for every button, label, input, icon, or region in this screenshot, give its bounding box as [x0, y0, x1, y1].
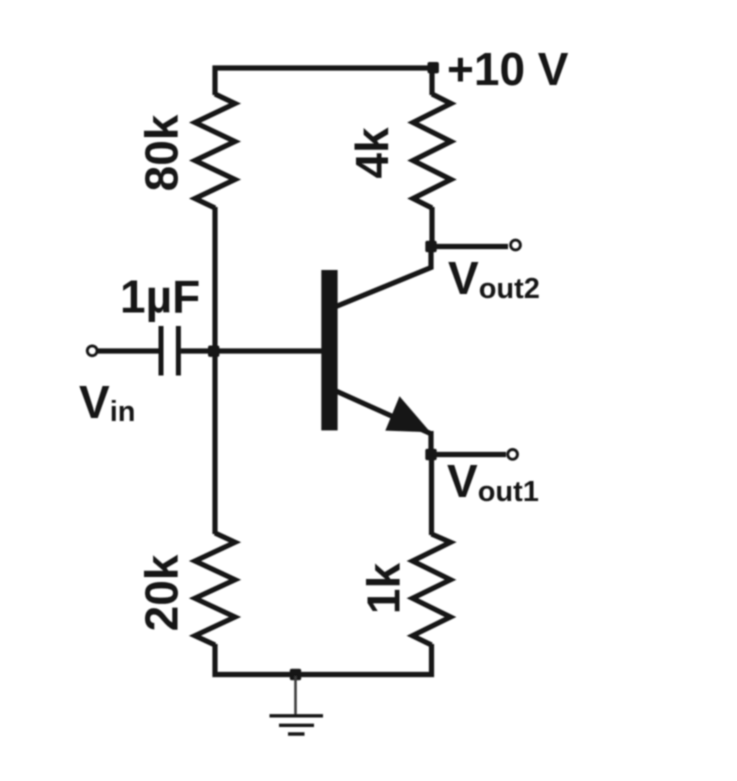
svg-text:1k: 1k: [358, 563, 410, 615]
node junction base/capacitor: [208, 346, 219, 357]
wire top rail: [213, 65, 434, 70]
ground bar 2: [279, 724, 314, 727]
terminal Vout2 circle: [511, 240, 521, 250]
resistor R2 4k body: [413, 94, 451, 208]
svg-text:1µF: 1µF: [120, 271, 200, 323]
terminal Vout1 circle: [508, 450, 518, 460]
capacitor C1 left plate: [159, 326, 164, 376]
capacitor C1 input wire: [97, 348, 159, 353]
wire right top segment: [429, 66, 434, 95]
wire collector node vertical: [429, 207, 434, 247]
wire left top segment: [212, 66, 217, 95]
wire emitter diagonal: [336, 391, 431, 434]
wire base horizontal: [215, 348, 323, 353]
svg-text:Vin: Vin: [79, 376, 135, 428]
node junction Vout2: [425, 241, 436, 252]
capacitor C1 output wire: [181, 348, 212, 353]
transistor Q1 emitter arrow: [385, 396, 430, 432]
wire left middle segment: [212, 207, 217, 534]
node junction top (+10V): [428, 62, 439, 73]
svg-text:4k: 4k: [346, 127, 398, 179]
capacitor C1 right plate: [176, 326, 181, 376]
svg-text:+10 V: +10 V: [447, 43, 569, 95]
wire Vout1 stub: [430, 452, 506, 457]
wire emitter vertical: [428, 431, 433, 456]
wire Vout2 stub: [430, 244, 508, 249]
ground bar 1: [270, 714, 324, 717]
terminal Vin circle: [87, 346, 97, 356]
transistor Q1 base bar: [321, 270, 337, 430]
resistor R1 80k body: [195, 94, 235, 208]
ground bar 3: [288, 732, 305, 735]
wire 1k top segment: [429, 453, 434, 535]
wire left bottom + bottom rail + right bottom: [215, 644, 432, 675]
wire collector diagonal: [336, 244, 431, 307]
svg-text:Vout2: Vout2: [448, 252, 540, 305]
node junction Vout1: [425, 449, 436, 460]
resistor R3 20k body: [195, 533, 235, 645]
resistor R4 1k body: [413, 534, 451, 645]
ground stem: [294, 676, 297, 715]
svg-text:80k: 80k: [136, 114, 188, 191]
node junction ground: [290, 669, 301, 680]
svg-text:Vout1: Vout1: [447, 455, 539, 508]
svg-text:20k: 20k: [136, 554, 188, 631]
